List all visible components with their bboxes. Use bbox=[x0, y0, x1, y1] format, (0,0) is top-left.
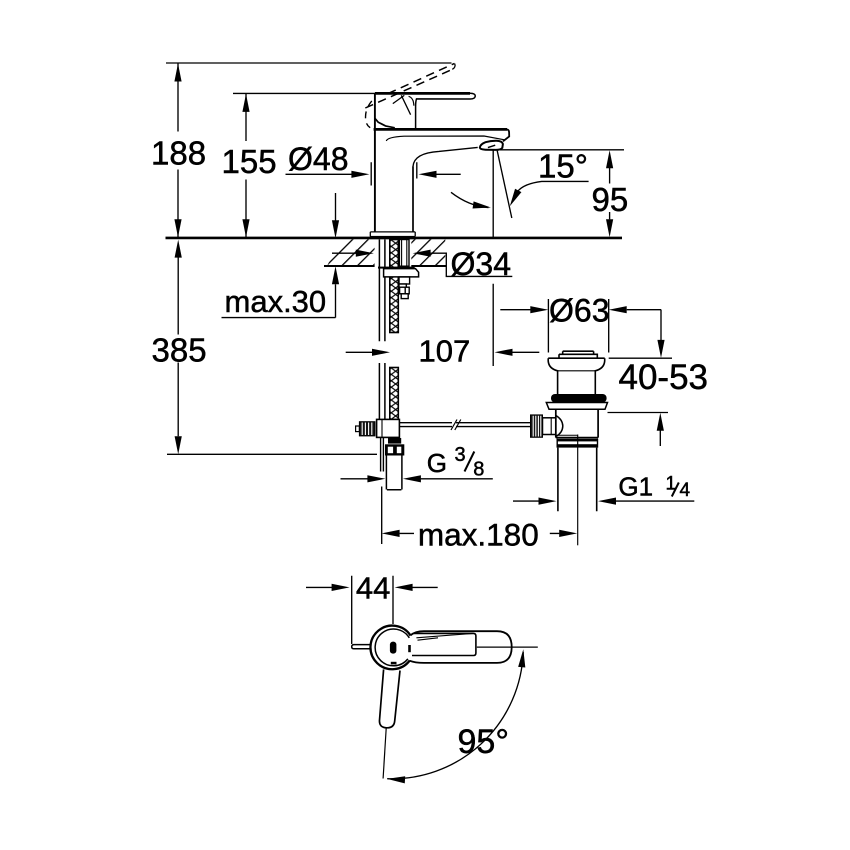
svg-text:95°: 95° bbox=[458, 723, 509, 761]
drain knurled knob bbox=[531, 415, 543, 437]
clamp screw tip bbox=[356, 426, 360, 432]
popup waste upper cup bbox=[548, 358, 605, 394]
supply hose bbox=[386, 456, 402, 490]
counter hatching left bbox=[327, 239, 375, 266]
svg-text:107: 107 bbox=[419, 334, 471, 369]
drain compression nut bbox=[557, 439, 597, 448]
dimension D63 bbox=[500, 292, 661, 352]
svg-text:Ø63: Ø63 bbox=[549, 292, 609, 328]
top view axis line bbox=[477, 646, 538, 648]
dimension max.30 bbox=[222, 193, 340, 319]
svg-text:40-53: 40-53 bbox=[619, 358, 709, 397]
angle arc bbox=[451, 192, 491, 211]
drain flange bbox=[546, 403, 607, 410]
dimension D48 bbox=[286, 141, 461, 186]
spray slanted 15 deg line bbox=[497, 151, 512, 218]
svg-text:44: 44 bbox=[356, 570, 390, 605]
pull rod upper bbox=[379, 240, 385, 420]
hex nut G3/8 bbox=[385, 444, 404, 455]
counter underside lines bbox=[324, 265, 446, 267]
dimension 40-53 bbox=[608, 310, 709, 446]
drain rod connector bbox=[543, 416, 563, 437]
dimension 95 deg arc bbox=[387, 649, 527, 783]
dimension max.180 bbox=[382, 435, 578, 553]
svg-text:4: 4 bbox=[680, 480, 691, 501]
svg-text:Ø34: Ø34 bbox=[451, 246, 511, 282]
svg-text:95: 95 bbox=[592, 181, 629, 218]
svg-text:155: 155 bbox=[222, 143, 277, 180]
down handle center line bbox=[383, 728, 386, 778]
svg-text:G: G bbox=[427, 448, 447, 478]
svg-text:15°: 15° bbox=[538, 148, 588, 185]
top view down handle bbox=[379, 669, 400, 727]
shank spacer sleeve bbox=[399, 240, 409, 267]
drain valve body bbox=[556, 409, 598, 437]
dimension 15 deg with leader bbox=[507, 148, 589, 208]
dimension G3/8 bbox=[341, 444, 493, 483]
dimension 188 bbox=[151, 63, 452, 237]
top view lever stick bbox=[412, 633, 476, 655]
dimension G1 1/4 bbox=[513, 471, 694, 504]
top view cartridge slot bbox=[390, 642, 397, 654]
faucet base flare bbox=[370, 232, 416, 239]
top view lever blade bbox=[410, 631, 512, 663]
dimension 44 bbox=[306, 570, 438, 644]
horizontal drain rod bbox=[399, 420, 530, 431]
svg-text:3: 3 bbox=[455, 444, 466, 466]
svg-text:max.30: max.30 bbox=[225, 284, 327, 319]
top view small tick bbox=[408, 645, 411, 652]
spray reference vertical line bbox=[492, 150, 494, 366]
dimension 155 bbox=[222, 93, 421, 237]
pull rod clamp bbox=[377, 419, 402, 443]
popup waste cap bbox=[559, 351, 597, 358]
locknut under counter bbox=[378, 267, 419, 277]
rubber washer bbox=[551, 394, 607, 403]
dashed raised lever bbox=[365, 63, 455, 127]
counter top line bbox=[166, 237, 623, 240]
pull rod lower stub bbox=[381, 438, 384, 472]
counter hatching right bbox=[411, 239, 445, 266]
top view outer circle bbox=[370, 626, 410, 670]
svg-text:max.180: max.180 bbox=[418, 517, 539, 553]
spout aerator bbox=[480, 141, 503, 150]
dimension D34 bbox=[332, 246, 512, 282]
dimension 95 bbox=[500, 150, 628, 237]
top view bottom dash bbox=[391, 662, 397, 665]
top view pull rod bbox=[352, 645, 371, 649]
svg-text:8: 8 bbox=[473, 459, 484, 481]
svg-text:188: 188 bbox=[151, 135, 206, 172]
svg-text:G1: G1 bbox=[618, 471, 653, 501]
threaded shank upper bbox=[390, 240, 399, 420]
dimension 107 bbox=[346, 334, 540, 369]
dimension 385 bbox=[152, 240, 378, 455]
hose connection blocks bbox=[399, 277, 410, 299]
svg-text:385: 385 bbox=[152, 332, 207, 369]
knurled knob faucet side bbox=[359, 422, 375, 436]
faucet body outline side view bbox=[374, 94, 510, 232]
drain tailpipe bbox=[558, 448, 597, 512]
lever housing bbox=[375, 95, 411, 128]
svg-text:Ø48: Ø48 bbox=[288, 141, 348, 177]
lever handle side view bbox=[375, 93, 475, 128]
